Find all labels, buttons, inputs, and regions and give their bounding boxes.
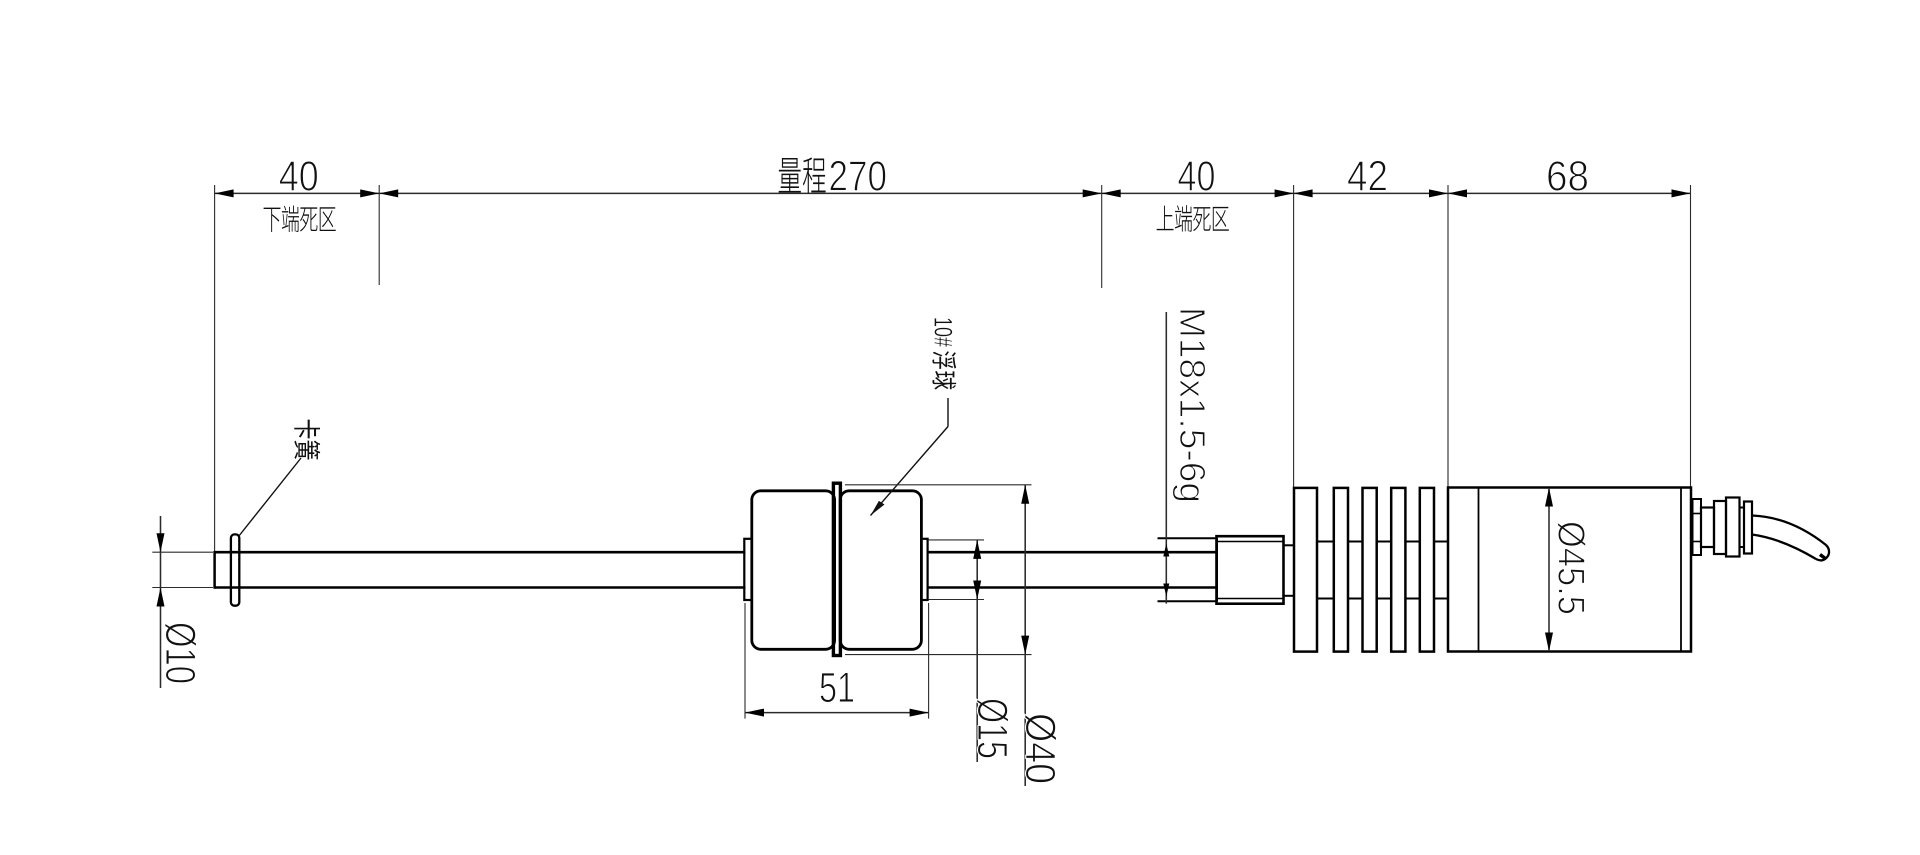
extension line at rod left end — [214, 185, 216, 552]
fin 2 — [1334, 488, 1348, 652]
label shang duan si qu — [1157, 205, 1229, 232]
svg-text:Ø40: Ø40 — [1016, 713, 1064, 784]
label ka huang (clip) — [294, 420, 320, 460]
thread section M18 — [1158, 538, 1218, 601]
leader line for float — [871, 398, 949, 516]
dimension 68 arrows — [1448, 189, 1691, 197]
rod lower edge (left span) — [215, 586, 746, 589]
dimension line phi10 — [157, 516, 165, 688]
svg-text:42: 42 — [1347, 153, 1388, 201]
dimension 42 arrows — [1294, 189, 1448, 197]
leader line for clip — [239, 458, 302, 537]
rod upper edge (right span) — [927, 551, 1217, 554]
dimension 40 upper dead zone arrows — [1102, 189, 1294, 197]
fin gap shaft lines — [1317, 542, 1448, 599]
float right collar — [921, 539, 927, 600]
dimension label 68 — [1546, 153, 1589, 201]
fin 1 (wide washer) — [1294, 488, 1317, 652]
svg-text:M18x1.5-6g: M18x1.5-6g — [1172, 307, 1213, 503]
svg-text:270: 270 — [829, 153, 888, 201]
body inner line right — [1680, 488, 1682, 652]
gland nut — [1701, 508, 1714, 548]
svg-text:Ø15: Ø15 — [968, 698, 1016, 759]
rod lower edge (right span) — [927, 586, 1217, 589]
dimension line phi15 — [973, 540, 981, 762]
dimension line phi45.5 — [1545, 488, 1553, 652]
extension line at lower dead zone boundary — [378, 185, 380, 285]
dimension line 51 — [745, 709, 929, 717]
float left collar — [744, 539, 752, 600]
fin 3 — [1363, 488, 1377, 652]
fin 4 — [1391, 488, 1405, 652]
svg-text:51: 51 — [819, 664, 855, 712]
svg-text:40: 40 — [1178, 153, 1216, 201]
dimension label 51 — [819, 664, 855, 712]
dimension label liangcheng 270 — [779, 153, 887, 201]
svg-text:10#: 10# — [929, 317, 957, 347]
body inner line left — [1478, 488, 1480, 652]
extension lines phi15 — [929, 540, 985, 600]
cable — [1752, 516, 1829, 561]
extension line at body right end — [1690, 185, 1692, 488]
rod upper edge (left span) — [215, 551, 746, 554]
dimension line (top chain) — [215, 192, 1691, 194]
svg-text:Ø45.5: Ø45.5 — [1550, 521, 1592, 615]
extension line at upper dead zone boundary — [1101, 185, 1103, 288]
extension line at fins/body boundary — [1447, 185, 1449, 488]
fin 5 — [1420, 488, 1434, 652]
label xia duan si qu — [264, 205, 336, 232]
dimension range 270 arrows — [379, 189, 1101, 197]
dimension label 40 (lower dead zone) — [279, 153, 319, 201]
extension lines 51 — [745, 603, 929, 719]
gland ring 2 — [1726, 498, 1740, 557]
extension lines phi40 — [845, 485, 1032, 655]
svg-text:68: 68 — [1546, 153, 1589, 201]
dimension label phi15 — [968, 698, 1016, 759]
float left half — [752, 491, 835, 650]
extension line at thread/fins boundary — [1293, 185, 1295, 488]
extension lines phi10 — [152, 552, 213, 587]
dimension label M18x1.5-6g — [1172, 307, 1213, 503]
hex nut — [1217, 536, 1284, 604]
dimension line phi40 — [1021, 485, 1029, 786]
gland ring 1 — [1714, 501, 1726, 554]
svg-text:40: 40 — [279, 153, 319, 201]
retaining clip disc — [231, 534, 239, 605]
svg-text:Ø10: Ø10 — [156, 622, 204, 684]
dimension label phi45.5 — [1550, 521, 1592, 615]
thread minor diameter lines — [1158, 552, 1217, 587]
float center band — [833, 483, 840, 655]
rod left end cap — [213, 551, 216, 589]
gland washer — [1693, 499, 1702, 555]
dimension label 40 (upper dead zone) — [1178, 153, 1216, 201]
dimension line M18 — [1163, 312, 1169, 604]
label 10# float ball — [929, 317, 957, 390]
gland end collar — [1744, 502, 1752, 554]
dimension label phi40 — [1016, 713, 1064, 784]
gland neck — [1740, 508, 1745, 548]
dimension 40 lower dead zone arrows — [215, 189, 380, 197]
dimension label 42 — [1347, 153, 1388, 201]
body housing — [1448, 488, 1691, 652]
float right half — [840, 491, 921, 650]
nut to fin connector — [1284, 545, 1296, 596]
dimension label phi10 — [156, 622, 204, 684]
